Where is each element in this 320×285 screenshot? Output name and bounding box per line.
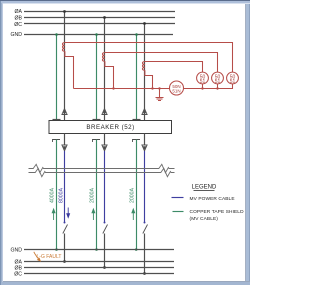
junction S1b on GND bus bbox=[55, 248, 58, 251]
wire shield S3b bbox=[136, 140, 138, 250]
node #A bus (bottom) bbox=[24, 261, 174, 263]
shield S1 termination bar bbox=[53, 119, 61, 121]
node GND bus (top) bbox=[24, 34, 173, 36]
arrow 2000A up (shield 2) bbox=[92, 209, 95, 220]
open point slash 3 bbox=[143, 225, 148, 234]
shield S3b hook bbox=[133, 140, 141, 143]
svg-text:L-G FAULT: L-G FAULT bbox=[37, 254, 62, 260]
shield S3 termination bar bbox=[133, 119, 141, 121]
wire CT2 secondary top to relay 2 bbox=[105, 53, 218, 73]
svg-text:GND: GND bbox=[10, 248, 22, 254]
wire CT1 secondary top to relay 3 bbox=[65, 43, 233, 73]
junction S2 tap on GND bbox=[95, 33, 98, 36]
junction F3 on #C bus bbox=[143, 272, 146, 275]
relay 50/51 phase 3 (U3) bbox=[227, 72, 239, 84]
wire shield S2 bbox=[96, 35, 98, 120]
svg-text:2000A: 2000A bbox=[129, 187, 135, 203]
MV cable 2 end dot bbox=[104, 222, 106, 224]
drawing background bbox=[0, 0, 250, 285]
wire CT secondary return bus bbox=[74, 84, 233, 89]
junction relay1 on bus bbox=[201, 87, 203, 89]
junction CT3 return on bus bbox=[151, 87, 153, 89]
junction ground stub on bus bbox=[158, 87, 160, 89]
junction S3b on GND bus bbox=[135, 248, 138, 251]
junction F2 tap on ØB bbox=[103, 16, 106, 19]
MV cable 1 end dot bbox=[64, 222, 66, 224]
legend copper tape shield sample bbox=[173, 211, 184, 213]
svg-text:ØC: ØC bbox=[14, 272, 22, 278]
shield S2 termination bar bbox=[93, 119, 101, 121]
cable termination arrow F3b (below breaker) bbox=[142, 145, 147, 151]
svg-text:COPPER TAPE SHIELD: COPPER TAPE SHIELD bbox=[190, 209, 245, 215]
relay 50N/51N ground (U4) bbox=[170, 81, 184, 95]
svg-text:ØA: ØA bbox=[15, 9, 23, 15]
node #C bus (bottom) bbox=[24, 273, 174, 275]
wire CT1 secondary bottom return bbox=[65, 51, 74, 88]
wire fault stub 3 to #C bbox=[144, 234, 146, 274]
breaker 52 box bbox=[49, 121, 172, 134]
wire CT3 secondary top to relay 1 bbox=[145, 62, 203, 73]
cable termination arrow F3 (above breaker) bbox=[142, 109, 147, 115]
shield S2b hook bbox=[93, 140, 101, 143]
relay 50/51 phase 2 (U2) bbox=[212, 72, 224, 84]
arrow 4000A up bbox=[52, 209, 55, 220]
node ØC bus (top) bbox=[24, 23, 175, 25]
svg-text:MV POWER CABLE: MV POWER CABLE bbox=[190, 196, 235, 202]
cable termination arrow F1b (below breaker) bbox=[62, 145, 67, 151]
svg-text:51: 51 bbox=[230, 79, 236, 85]
wire shield S1 (copper tape shield) bbox=[56, 35, 58, 120]
node #B bus (bottom) bbox=[24, 267, 174, 269]
svg-text:51: 51 bbox=[215, 79, 221, 85]
node GND bus (bottom) bbox=[24, 249, 174, 251]
shield S1b hook bbox=[53, 140, 61, 143]
wire F3 stub below breaker bbox=[144, 134, 146, 146]
svg-text:4000A: 4000A bbox=[50, 187, 56, 203]
junction relay2 on bus bbox=[216, 87, 218, 89]
wire F2 stub below breaker bbox=[104, 134, 106, 146]
open point slash 1 bbox=[63, 225, 68, 234]
duct bank bottom line with break symbols bbox=[29, 168, 175, 176]
cable termination arrow F2b (below breaker) bbox=[102, 145, 107, 151]
wire feeder F3 (phase C cable) bbox=[144, 24, 146, 121]
svg-text:51: 51 bbox=[200, 79, 206, 85]
svg-text:LEGEND: LEGEND bbox=[192, 185, 217, 191]
CT2 secondary coil bbox=[102, 53, 104, 62]
wire CT3 secondary bottom return bbox=[145, 70, 153, 88]
junction F3 tap on ØC bbox=[143, 22, 146, 25]
wire fault stub 1 to #A bbox=[64, 234, 66, 262]
svg-text:8000A: 8000A bbox=[58, 187, 64, 203]
node ØA bus (top) bbox=[24, 11, 175, 13]
L-G FAULT arrow bbox=[34, 252, 39, 259]
wire MV cable 2 (blue) bbox=[104, 151, 106, 223]
junction S1 tap on GND bbox=[55, 33, 58, 36]
wire F1 stub below breaker bbox=[64, 134, 66, 146]
svg-text:(MV CABLE): (MV CABLE) bbox=[190, 216, 219, 222]
legend MV power cable sample bbox=[172, 197, 184, 199]
cable termination arrow F1 (above breaker) bbox=[62, 109, 67, 115]
arrow 8000A down bbox=[67, 208, 70, 218]
junction CT2 return on bus bbox=[112, 87, 114, 89]
wire feeder F2 (phase B cable) bbox=[104, 18, 106, 121]
duct bank top line with break symbols bbox=[29, 164, 175, 172]
svg-text:2000A: 2000A bbox=[89, 187, 95, 203]
MV cable 3 end dot bbox=[144, 222, 146, 224]
ground symbol bbox=[156, 89, 164, 101]
svg-text:ØC: ØC bbox=[14, 22, 22, 28]
svg-text:51N: 51N bbox=[172, 88, 180, 93]
svg-text:BREAKER (52): BREAKER (52) bbox=[86, 124, 134, 131]
wire feeder F1 (phase A cable) bbox=[64, 12, 66, 121]
svg-text:ØB: ØB bbox=[15, 16, 23, 22]
node ØB bus (top) bbox=[24, 17, 175, 19]
junction F1 tap on ØA bbox=[63, 10, 66, 13]
CT1 secondary coil bbox=[62, 43, 64, 52]
cable termination arrow F2 (above breaker) bbox=[102, 109, 107, 115]
wire CT2 secondary bottom return bbox=[105, 61, 114, 88]
junction F2 on #B bus bbox=[103, 266, 106, 269]
wire MV cable 3 (blue) bbox=[144, 151, 146, 223]
open point slash 2 bbox=[103, 225, 108, 234]
window frame border bbox=[0, 0, 250, 285]
wire MV cable 1 (blue) bbox=[64, 151, 66, 223]
CT3 secondary coil bbox=[142, 62, 144, 71]
svg-text:GND: GND bbox=[10, 32, 22, 38]
wire fault stub 2 to #B bbox=[104, 234, 106, 268]
arrow 2000A up (shield 3) bbox=[132, 209, 135, 220]
junction S3 tap on GND bbox=[135, 33, 138, 36]
wire shield S1b bbox=[56, 140, 58, 250]
relay 50/51 phase 1 (U1) bbox=[197, 72, 209, 84]
junction F1 on #A bus bbox=[63, 260, 66, 263]
wire shield S2b bbox=[96, 140, 98, 250]
wire shield S3 bbox=[136, 35, 138, 120]
junction S2b on GND bus bbox=[95, 248, 98, 251]
